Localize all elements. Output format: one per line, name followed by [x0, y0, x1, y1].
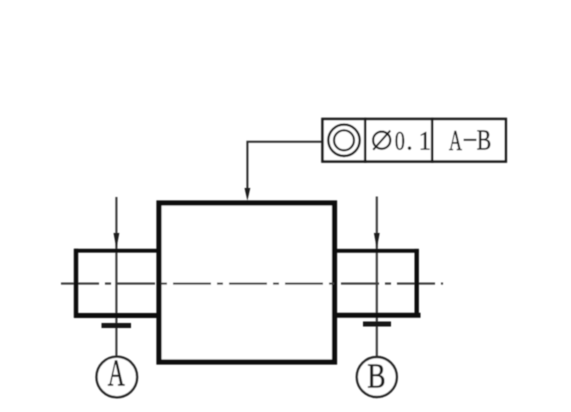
- tolerance digit 0: [395, 127, 405, 156]
- right shaft journal top edge: [334, 249, 419, 253]
- datum A target bar: [102, 323, 132, 328]
- svg-text:A: A: [449, 125, 463, 157]
- leader arrowhead: [245, 188, 251, 201]
- axis centerline: [61, 283, 443, 285]
- tolerance decimal point: [406, 127, 413, 156]
- left shaft journal top edge: [74, 249, 160, 253]
- concentricity symbol inner circle: [334, 130, 354, 150]
- svg-text:B: B: [477, 124, 492, 157]
- center cylinder body: [159, 203, 335, 362]
- diameter symbol: [373, 131, 390, 150]
- datum B target bar: [363, 322, 391, 327]
- feature control frame border: [323, 119, 506, 162]
- frame divider 2: [431, 118, 434, 163]
- datum B label circle: [357, 357, 397, 397]
- svg-text:.: .: [406, 127, 413, 156]
- axis centerline inside body: [159, 283, 334, 285]
- left shaft journal left edge: [74, 249, 78, 318]
- svg-text:1: 1: [419, 127, 431, 156]
- datum A dimension line: [115, 197, 117, 357]
- datum B dimension line: [376, 197, 378, 358]
- datum A arrowhead: [114, 233, 120, 249]
- datum A letter: [108, 352, 125, 394]
- svg-text:B: B: [367, 356, 385, 395]
- concentricity symbol outer circle: [328, 125, 359, 156]
- frame divider 1: [364, 118, 367, 163]
- left shaft journal bottom edge: [74, 313, 160, 318]
- leader wire: [247, 142, 322, 190]
- datum A label circle: [97, 357, 138, 398]
- right shaft journal bottom edge: [334, 313, 421, 318]
- datum B letter: [367, 356, 385, 395]
- datum reference letter B: [477, 124, 492, 157]
- svg-text:A: A: [108, 352, 125, 394]
- datum reference letter A: [449, 125, 463, 157]
- right shaft journal right edge: [415, 249, 419, 318]
- datum reference dash: [464, 139, 477, 141]
- tolerance digit 1: [419, 127, 431, 156]
- svg-text:0: 0: [395, 127, 405, 156]
- datum B arrowhead: [374, 233, 380, 249]
